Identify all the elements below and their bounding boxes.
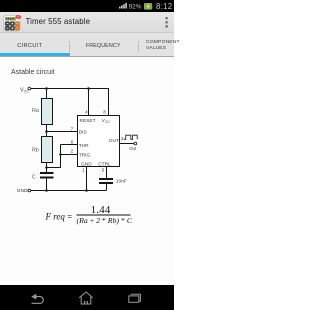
capacitor C plates — [40, 172, 54, 174]
wire 10nF to ground rail — [106, 184, 108, 191]
svg-text:DIS: DIS — [79, 130, 87, 136]
svg-text:(Ra + 2 * Rb) * C: (Ra + 2 * Rb) * C — [77, 216, 133, 225]
status bar icons — [0, 0, 174, 12]
svg-text:6: 6 — [71, 139, 74, 144]
signal bars icon — [119, 3, 127, 9]
selected tab indicator — [0, 53, 70, 57]
svg-text:Rb: Rb — [32, 147, 39, 153]
recent apps icon — [129, 294, 141, 302]
svg-text:3: 3 — [121, 136, 124, 141]
capacitor 10nF plates — [99, 178, 113, 180]
junction Rb-C — [45, 166, 48, 169]
svg-text:4: 4 — [85, 109, 88, 114]
wire CTRL pin5 — [106, 167, 108, 179]
svg-text:CC: CC — [105, 120, 110, 124]
wire Rb to C — [46, 163, 48, 173]
home icon — [79, 292, 93, 304]
junction pin1-ground — [85, 189, 88, 192]
svg-text:C: C — [32, 175, 36, 181]
junction Ra-Rb-DIS — [45, 130, 48, 133]
wire ground rail — [31, 190, 107, 192]
svg-text:GND: GND — [17, 188, 28, 194]
navigation bar — [0, 285, 174, 310]
svg-text:7: 7 — [71, 126, 74, 131]
wire TRIG pin2 — [61, 154, 78, 156]
node Vcc terminal — [28, 87, 31, 90]
svg-text:CTRL: CTRL — [98, 161, 111, 167]
battery icon — [144, 3, 152, 9]
svg-text:1.44: 1.44 — [91, 204, 111, 216]
svg-text:1: 1 — [82, 168, 85, 173]
fraction bar — [77, 214, 131, 216]
content area — [0, 57, 174, 285]
svg-text:Out: Out — [129, 146, 137, 151]
junction THR-TRIG — [59, 153, 62, 156]
svg-text:92%: 92% — [129, 3, 142, 10]
wire OUT pin3 — [120, 143, 134, 145]
wire THR pin6 — [61, 144, 78, 146]
tab bar — [0, 33, 174, 57]
app bar — [0, 12, 174, 33]
wire Vcc rail — [31, 89, 109, 116]
overflow menu icon — [160, 12, 174, 33]
formula Freq = 1.44 / ((Ra+2*Rb)*C) — [45, 204, 133, 225]
wire THR-TRIG-bottom link — [47, 145, 61, 168]
svg-text:GND: GND — [81, 161, 92, 167]
wire Ra top — [46, 89, 48, 99]
back icon — [31, 294, 43, 304]
wire DIS pin7 — [47, 131, 78, 133]
svg-text:8: 8 — [103, 109, 106, 114]
svg-text:8:12: 8:12 — [156, 2, 172, 11]
svg-text:5: 5 — [102, 168, 105, 173]
IC U1 555 timer body — [78, 116, 120, 167]
square wave symbol — [124, 135, 137, 139]
wire Ra to Rb — [46, 125, 48, 137]
svg-text:TRIG: TRIG — [79, 152, 91, 158]
svg-text:RESET: RESET — [80, 118, 96, 124]
resistor Rb — [42, 137, 53, 163]
junction Vcc-Ra — [45, 87, 48, 90]
junction C-ground — [45, 189, 48, 192]
svg-text:OUT: OUT — [109, 138, 119, 144]
svg-text:THR: THR — [79, 143, 89, 149]
resistor Ra — [42, 99, 53, 125]
app icon (calculator) — [0, 12, 24, 33]
svg-text:CC: CC — [24, 90, 30, 94]
svg-text:F req =: F req = — [45, 212, 73, 222]
junction Vcc-pin4 — [87, 87, 90, 90]
wire GND pin1 — [86, 167, 88, 191]
svg-text:2: 2 — [71, 148, 74, 153]
ground terminal — [28, 189, 31, 192]
tab divider — [69, 41, 70, 52]
wire pin4 drop — [88, 89, 90, 116]
tab divider — [138, 41, 139, 52]
svg-text:Ra: Ra — [32, 108, 39, 114]
wire C to ground rail — [46, 178, 48, 191]
svg-text:10nF: 10nF — [116, 179, 127, 185]
node Out terminal — [134, 142, 137, 145]
status bar — [0, 0, 174, 12]
